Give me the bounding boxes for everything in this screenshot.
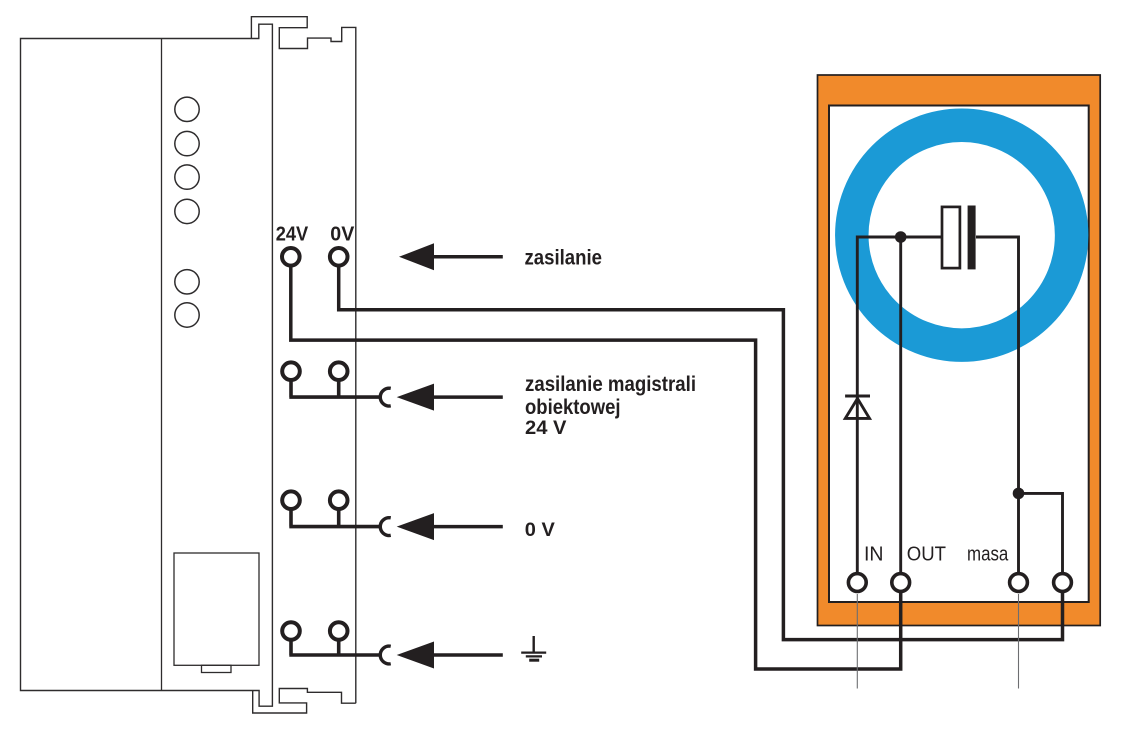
terminal 24V xyxy=(282,248,300,266)
blue ring xyxy=(852,125,1072,345)
row2 hook xyxy=(380,388,390,406)
LED L5 xyxy=(175,270,199,294)
diode D1 bar xyxy=(845,395,870,398)
LED L6 xyxy=(175,303,199,327)
sensor inner panel xyxy=(829,106,1089,603)
row2 arrow tail xyxy=(434,395,503,399)
LED L2 xyxy=(175,131,199,155)
row4 arrow tail xyxy=(434,653,503,657)
junction node at masa branch xyxy=(1013,488,1025,500)
lead below masa xyxy=(1018,594,1020,689)
diode D1 triangle xyxy=(845,399,869,419)
svg-text:zasilanie magistrali: zasilanie magistrali xyxy=(525,373,696,396)
sensor terminal OUT xyxy=(892,574,910,592)
connector tab xyxy=(202,665,232,672)
piezo element left plate xyxy=(942,207,960,268)
sensor branch to right terminal xyxy=(1019,493,1063,573)
row4 terminal b xyxy=(330,622,348,640)
row2 terminal a xyxy=(282,362,300,380)
LED L1 xyxy=(175,97,199,121)
sensor wire OUT xyxy=(899,237,902,573)
row2 terminal stems and bus xyxy=(289,375,379,397)
row4 hook xyxy=(380,646,390,664)
svg-text:IN: IN xyxy=(864,544,884,566)
svg-text:24V: 24V xyxy=(276,223,309,246)
wire 24V to OUT xyxy=(291,266,901,669)
sensor terminal IN xyxy=(848,574,866,592)
piezo element right plate xyxy=(968,206,976,270)
lead below IN xyxy=(856,594,858,689)
svg-text:masa: masa xyxy=(967,544,1009,566)
row4 ground symbol xyxy=(533,636,535,653)
row1 arrow tail xyxy=(434,255,503,259)
svg-text:0 V: 0 V xyxy=(525,520,555,541)
sensor wire left (to IN) xyxy=(857,237,942,573)
row4 terminal a xyxy=(282,622,300,640)
row3 terminal stems and bus xyxy=(289,504,379,527)
svg-text:OUT: OUT xyxy=(907,544,946,566)
row2 terminal b xyxy=(330,362,348,380)
row2 arrow xyxy=(397,384,434,411)
row3 terminal a xyxy=(282,491,300,509)
module front divider xyxy=(161,39,163,691)
module bottom DIN clip xyxy=(253,689,356,714)
sensor wire right (to masa) xyxy=(976,237,1019,573)
svg-text:0V: 0V xyxy=(330,223,354,246)
terminal 0V xyxy=(330,248,348,266)
row3 hook xyxy=(380,518,390,536)
row1 arrow xyxy=(399,243,434,270)
module body outline xyxy=(21,24,273,706)
row4 arrow xyxy=(397,642,434,669)
junction node at OUT xyxy=(895,231,907,243)
connector block xyxy=(174,553,259,665)
svg-text:24 V: 24 V xyxy=(525,418,567,439)
row3 arrow xyxy=(397,513,434,540)
wire 0V to right terminal xyxy=(339,266,1063,640)
row3 arrow tail xyxy=(434,525,503,529)
row4 terminal stems and bus xyxy=(289,635,379,655)
svg-text:obiektowej: obiektowej xyxy=(525,396,621,419)
LED L4 xyxy=(175,199,199,223)
sensor terminal right xyxy=(1054,574,1072,592)
svg-text:zasilanie: zasilanie xyxy=(525,247,603,270)
row3 terminal b xyxy=(330,491,348,509)
sensor terminal masa xyxy=(1010,574,1028,592)
module top DIN clip and right edge xyxy=(251,17,355,704)
LED L3 xyxy=(175,165,199,189)
sensor orange frame xyxy=(818,75,1101,626)
